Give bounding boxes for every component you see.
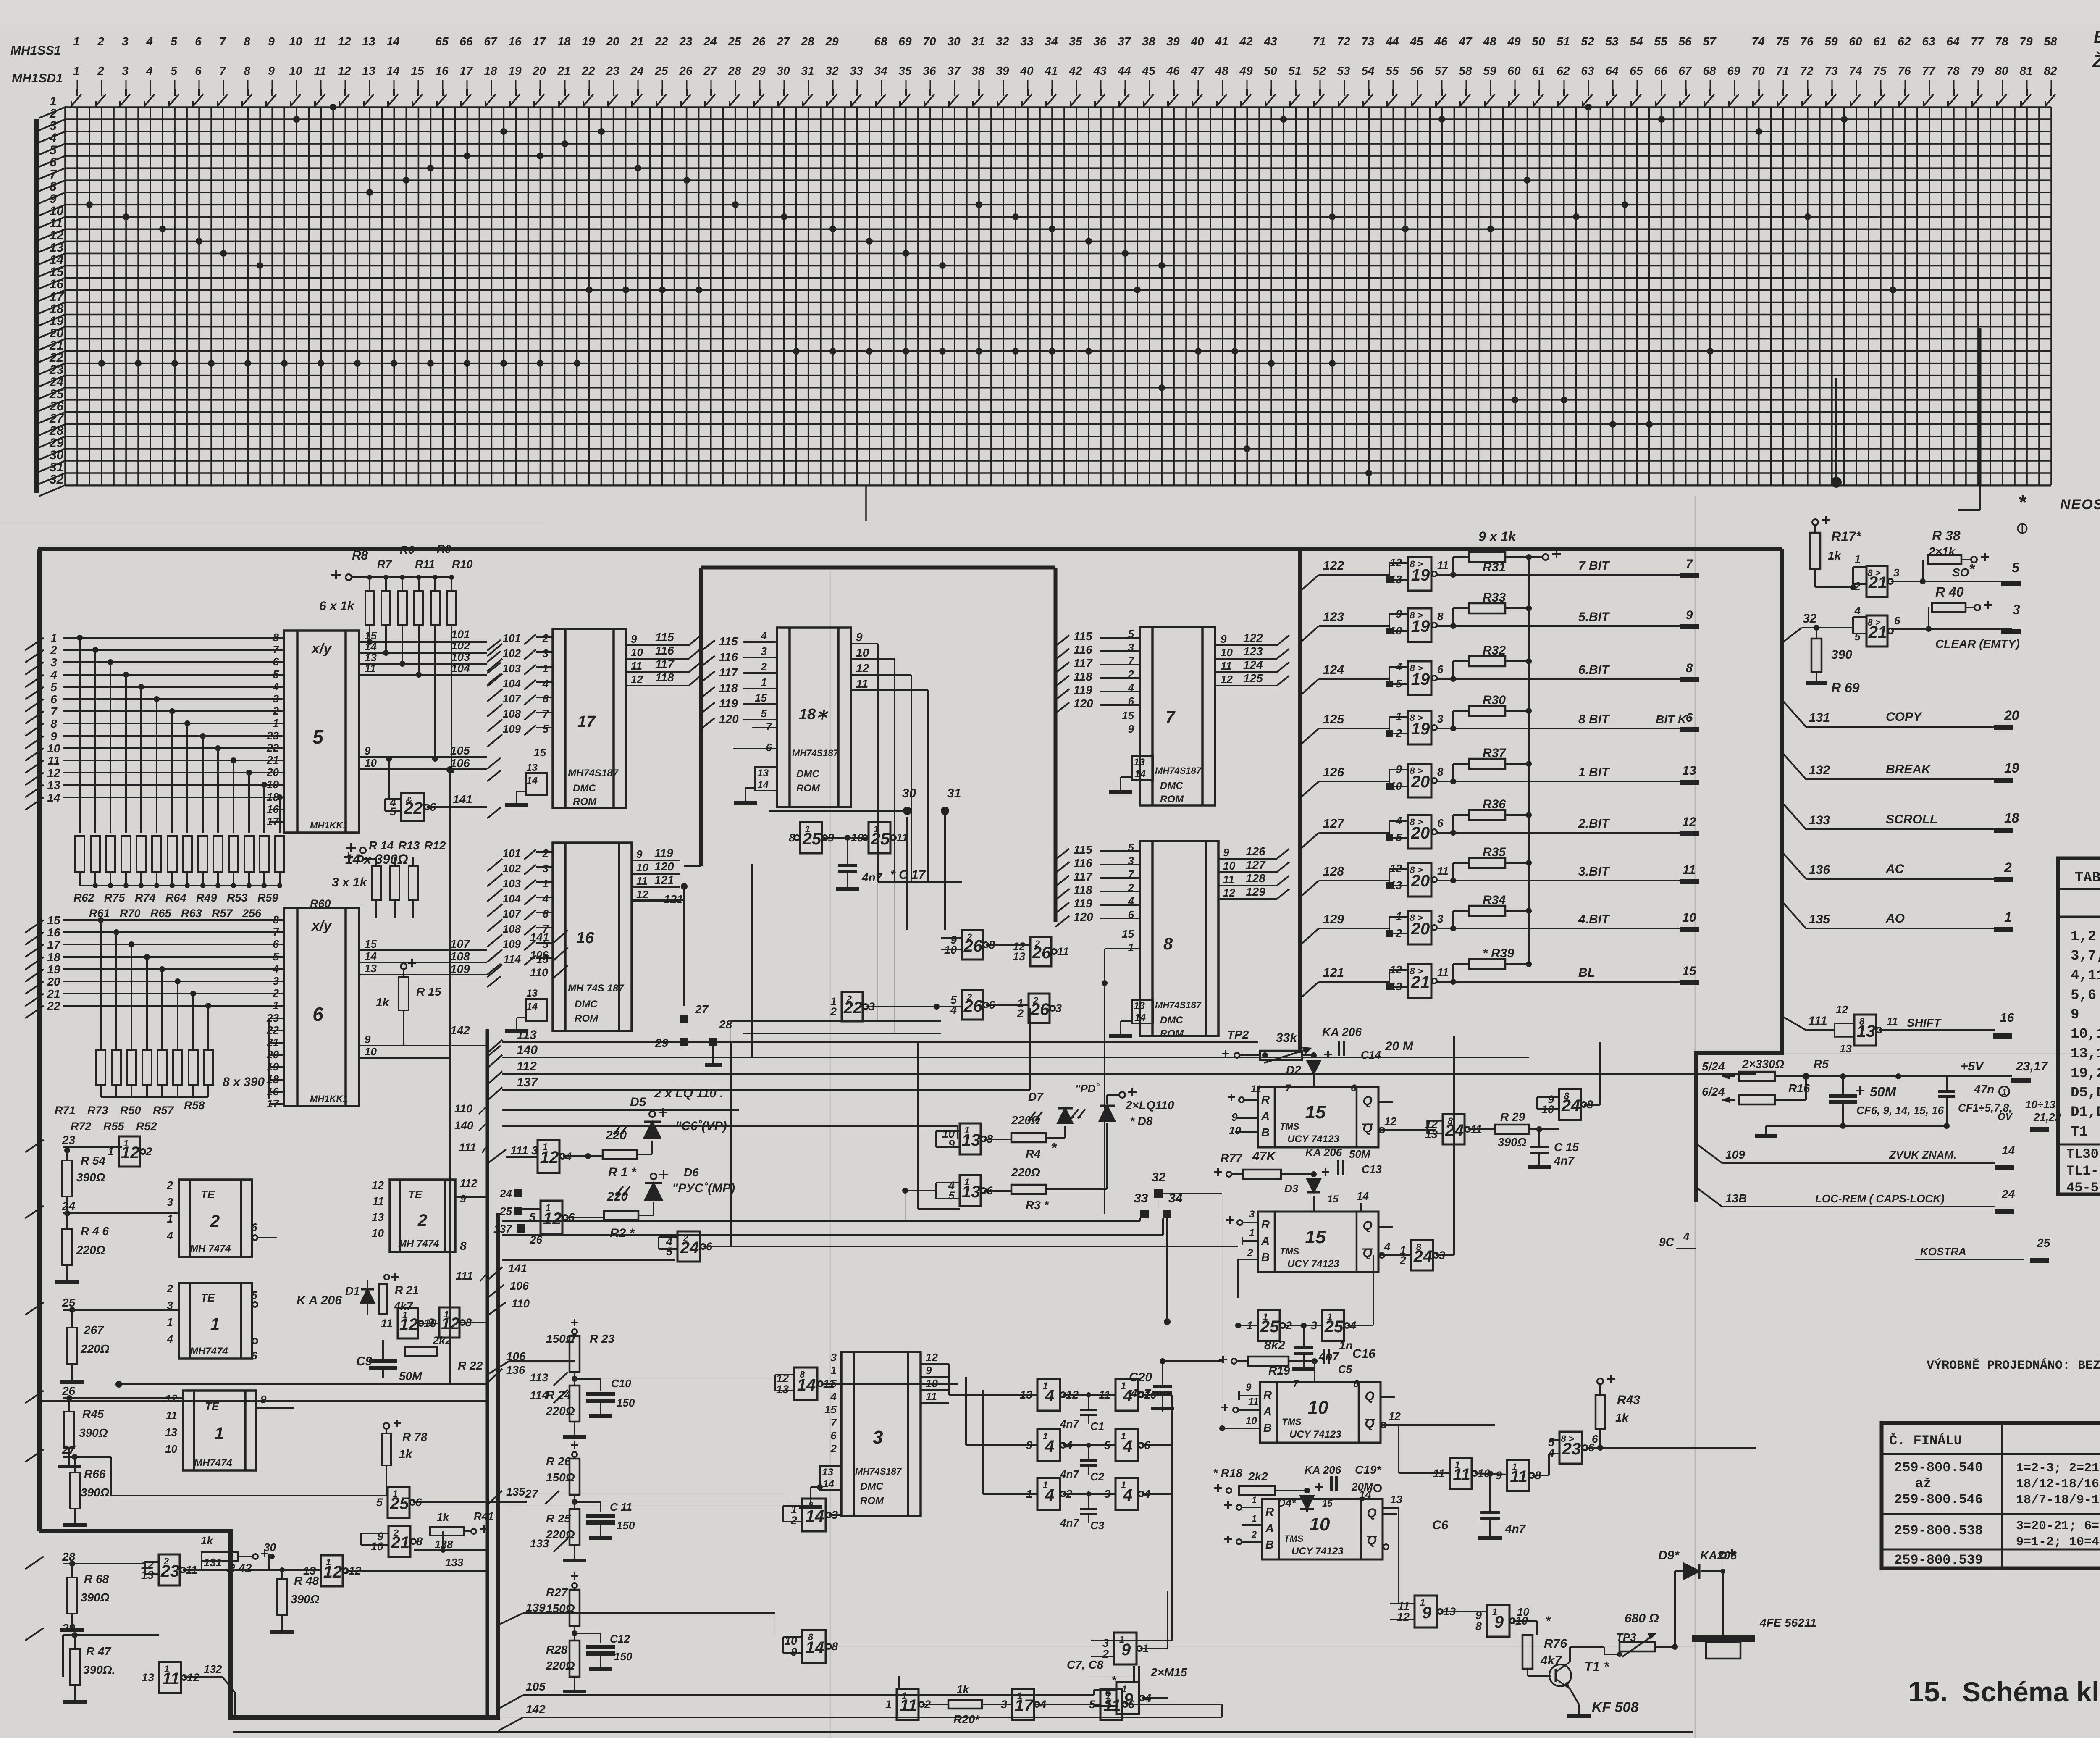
svg-text:106: 106	[450, 757, 470, 770]
svg-text:4: 4	[950, 1004, 957, 1016]
svg-text:2: 2	[417, 1211, 427, 1230]
svg-text:+5V: +5V	[1961, 1060, 1984, 1073]
svg-text:48: 48	[1215, 64, 1228, 77]
svg-text:13: 13	[372, 1211, 384, 1223]
svg-text:102: 102	[503, 862, 521, 875]
svg-text:TMS: TMS	[1282, 1417, 1302, 1427]
long wire 112	[502, 1073, 1756, 1075]
svg-text:113: 113	[530, 1371, 548, 1384]
svg-text:70: 70	[1751, 64, 1765, 77]
gate 12a	[119, 1136, 140, 1167]
wire 121 from bus to gate 21	[1300, 982, 1319, 999]
svg-text:259-800.538: 259-800.538	[1894, 1523, 1983, 1538]
wires around gates 26	[986, 944, 1030, 946]
svg-text:R 21: R 21	[395, 1284, 419, 1296]
ROM18 right pins 9 10 12 11	[851, 631, 928, 882]
svg-text:2: 2	[542, 632, 549, 644]
gate 20 row 1 BIT	[1408, 764, 1431, 797]
gate 20 row 3.BIT	[1408, 863, 1431, 897]
svg-text:29: 29	[752, 64, 766, 77]
svg-text:R43: R43	[1617, 1393, 1640, 1407]
svg-text:8 x 390: 8 x 390	[223, 1075, 265, 1089]
middle heavy box top	[701, 566, 1055, 570]
svg-text:123: 123	[1243, 645, 1263, 658]
flip-flop TE 1b MH7474	[183, 1391, 256, 1470]
terminal 26	[25, 1391, 44, 1403]
resistor R54 390	[62, 1160, 72, 1196]
svg-text:R2 *: R2 *	[610, 1226, 635, 1240]
wire long 27 row	[502, 1259, 675, 1261]
svg-text:66: 66	[1654, 64, 1667, 77]
svg-text:B BYSTRICA - 300. 538: B BYSTRICA - 300. 538	[2094, 27, 2100, 47]
ROM 7 MH74S187	[1140, 627, 1215, 805]
svg-text:14: 14	[2002, 1144, 2015, 1157]
svg-text:38: 38	[971, 64, 985, 77]
svg-text:5/24: 5/24	[1702, 1060, 1725, 1073]
bottom long wire 142	[523, 1717, 1222, 1718]
svg-text:70: 70	[923, 35, 936, 48]
capacitor C17 4n7	[847, 838, 848, 865]
svg-text:2: 2	[1033, 995, 1039, 1006]
ROM3 sub-box pins 13 14	[820, 1466, 841, 1490]
svg-text:24: 24	[703, 35, 717, 48]
resistor R36 1k	[1469, 810, 1505, 820]
svg-text:102: 102	[503, 647, 521, 660]
svg-text:12: 12	[338, 35, 351, 48]
svg-text:24: 24	[499, 1187, 512, 1200]
svg-text:11: 11	[1437, 559, 1449, 571]
svg-text:41: 41	[1215, 35, 1228, 48]
long wire 113	[502, 1041, 1258, 1043]
resistor R43 1k	[1597, 1378, 1603, 1384]
svg-text:10: 10	[372, 1227, 384, 1239]
svg-text:UCY 74123: UCY 74123	[1287, 1258, 1339, 1270]
ROM8 pin1 wire left long	[1105, 948, 1140, 949]
svg-text:13: 13	[303, 1564, 316, 1577]
resistor R34 1k	[1469, 906, 1505, 916]
svg-text:11: 11	[896, 831, 908, 844]
gates 12d 12e pair	[398, 1308, 418, 1338]
monostable 10b UCY74123	[1262, 1499, 1383, 1559]
svg-text:220Ω: 220Ω	[76, 1244, 105, 1257]
svg-text:x/y: x/y	[311, 641, 332, 657]
svg-text:390Ω: 390Ω	[81, 1486, 110, 1499]
svg-text:1: 1	[73, 35, 80, 48]
svg-text:44: 44	[1385, 35, 1399, 48]
resistor bank 3x1k R14 R13 R12	[372, 857, 418, 918]
svg-text:259-800.546: 259-800.546	[1894, 1492, 1983, 1507]
svg-text:133: 133	[445, 1556, 464, 1569]
svg-text:8 >: 8 >	[1410, 865, 1423, 875]
svg-text:R30: R30	[1483, 693, 1506, 707]
svg-text:73: 73	[1824, 64, 1838, 77]
svg-text:107: 107	[450, 937, 470, 950]
decoder 5 pins 9 10 outputs to 105 106	[359, 744, 501, 1384]
svg-text:30: 30	[777, 64, 790, 77]
svg-text:1: 1	[1855, 553, 1861, 565]
resistor R2 220	[604, 1211, 638, 1220]
svg-text:3: 3	[873, 1427, 883, 1448]
ROM 8 right pins to 126-129	[1218, 845, 1289, 899]
resistor R29 390	[1468, 1128, 1495, 1130]
svg-text:131: 131	[204, 1556, 222, 1569]
svg-text:MH1SD1: MH1SD1	[12, 71, 63, 85]
svg-text:DMC: DMC	[860, 1481, 883, 1492]
svg-text:T1 *: T1 *	[1584, 1659, 1609, 1674]
svg-text:3: 3	[1893, 566, 1900, 579]
ROM 16 left pin labels	[503, 847, 549, 1033]
svg-text:8: 8	[1416, 1242, 1422, 1252]
svg-text:12: 12	[1384, 1115, 1396, 1128]
terminal 27	[25, 1449, 44, 1462]
pads 32 33 34	[1154, 1189, 1163, 1198]
svg-text:259-800.539: 259-800.539	[1894, 1552, 1983, 1568]
svg-text:1: 1	[546, 1202, 551, 1213]
svg-text:C20: C20	[1129, 1370, 1152, 1384]
power tap for 9x1k	[1529, 556, 1542, 558]
svg-text:1: 1	[1252, 1495, 1257, 1505]
svg-text:25: 25	[654, 64, 668, 77]
svg-text:13: 13	[165, 1426, 177, 1438]
svg-text:6: 6	[1128, 695, 1134, 707]
svg-text:107: 107	[503, 692, 522, 705]
svg-text:3 x 1k: 3 x 1k	[332, 876, 367, 889]
svg-text:8: 8	[460, 1239, 467, 1252]
svg-text:2: 2	[790, 1514, 797, 1527]
svg-text:81: 81	[2019, 64, 2032, 77]
svg-text:56: 56	[1678, 35, 1692, 48]
svg-text:67: 67	[1678, 64, 1692, 77]
svg-text:32: 32	[825, 64, 839, 77]
wire band left-middle long returns	[502, 1109, 739, 1111]
svg-text:3: 3	[122, 35, 129, 48]
svg-text:12: 12	[636, 888, 648, 901]
svg-text:8: 8	[808, 1632, 814, 1642]
svg-text:140: 140	[454, 1119, 473, 1132]
monostable 15b UCY74123	[1258, 1212, 1378, 1272]
svg-text:21: 21	[47, 987, 60, 1000]
gate 21b pins 9 10 out 8 and R41	[388, 1526, 410, 1557]
svg-text:R50: R50	[120, 1104, 141, 1117]
svg-text:123: 123	[1323, 610, 1344, 624]
pin numbers left of decoder 6	[266, 913, 284, 1110]
svg-text:R 47: R 47	[86, 1645, 112, 1658]
signal line 5.BIT	[1436, 625, 1684, 627]
svg-text:2×330Ω: 2×330Ω	[1742, 1057, 1785, 1070]
svg-text:76: 76	[1898, 64, 1911, 77]
svg-text:D1,D2,D3,D4,D9: D1,D2,D3,D4,D9	[2071, 1104, 2100, 1120]
svg-text:MH 7474: MH 7474	[398, 1238, 439, 1249]
svg-text:Schéma klávesnice CONSUL 259.1: Schéma klávesnice CONSUL 259.13	[1962, 1676, 2100, 1707]
svg-text:1: 1	[1128, 941, 1134, 954]
svg-text:48: 48	[1483, 35, 1496, 48]
svg-text:23,17: 23,17	[2016, 1060, 2048, 1073]
svg-text:3: 3	[273, 975, 279, 987]
resistor R35 1k	[1469, 858, 1505, 868]
bundle diagonals 115-120 left of bus 1669	[689, 635, 701, 686]
svg-text:R 68: R 68	[84, 1572, 109, 1585]
svg-text:R41: R41	[474, 1510, 494, 1522]
svg-text:8: 8	[1437, 610, 1444, 623]
gate 11a pins 13 12 out 132	[159, 1662, 181, 1693]
svg-text:30: 30	[264, 1541, 276, 1554]
svg-text:50: 50	[1532, 35, 1545, 48]
svg-text:45: 45	[1142, 64, 1155, 77]
svg-text:R62: R62	[73, 891, 94, 904]
ROM 7 right pins to 122-125	[1215, 631, 1289, 686]
grid left heavy border bar	[34, 119, 39, 493]
svg-text:R34: R34	[1483, 893, 1506, 907]
svg-text:220Ω: 220Ω	[1011, 1166, 1040, 1179]
svg-text:31: 31	[971, 35, 984, 48]
svg-text:8: 8	[1448, 1116, 1453, 1126]
svg-text:8: 8	[273, 913, 279, 926]
svg-text:4: 4	[273, 962, 279, 975]
svg-text:15: 15	[47, 914, 60, 927]
svg-text:C 15: C 15	[1554, 1141, 1579, 1154]
svg-text:10: 10	[1308, 1397, 1328, 1418]
svg-text:35: 35	[1069, 35, 1082, 48]
svg-text:ROM: ROM	[796, 783, 820, 794]
svg-text:KOSTRA: KOSTRA	[1920, 1245, 1966, 1258]
svg-text:15: 15	[1305, 1102, 1326, 1123]
svg-text:R66: R66	[84, 1467, 106, 1480]
svg-text:3: 3	[1437, 713, 1444, 725]
svg-text:R45: R45	[82, 1407, 104, 1420]
long wires from left to pads	[502, 1220, 1140, 1222]
ROM 17 MH74S187	[553, 629, 626, 808]
svg-text:8: 8	[244, 64, 250, 77]
svg-text:9 x 1k: 9 x 1k	[1478, 529, 1517, 544]
svg-text:18: 18	[484, 64, 497, 77]
svg-text:R 4 6: R 4 6	[81, 1225, 109, 1238]
svg-text:150Ω: 150Ω	[546, 1332, 575, 1345]
svg-text:19,20,21,23: 19,20,21,23	[2071, 1066, 2100, 1082]
svg-text:129: 129	[1246, 885, 1265, 898]
resistors R26 R25 C11 gate 14b	[571, 1444, 578, 1446]
svg-text:1k: 1k	[399, 1447, 413, 1460]
svg-text:20: 20	[47, 975, 60, 988]
svg-text:9: 9	[1496, 1469, 1502, 1482]
svg-text:ROM: ROM	[860, 1495, 884, 1507]
svg-text:11: 11	[1251, 1083, 1261, 1095]
svg-text:47n: 47n	[1974, 1083, 1994, 1096]
svg-text:KA 206: KA 206	[1322, 1025, 1362, 1039]
wire 122 from bus to gate 19	[1300, 575, 1319, 592]
svg-text:ROM: ROM	[1160, 794, 1184, 805]
svg-text:8 >: 8 >	[1410, 912, 1423, 923]
svg-text:R19: R19	[1268, 1364, 1290, 1377]
svg-text:1: 1	[273, 717, 279, 729]
pull-up resistor bank 6x1k R8 R7 R11 R6 R9 R10	[365, 575, 456, 625]
svg-text:4: 4	[1384, 1240, 1391, 1253]
svg-text:105: 105	[450, 744, 470, 757]
labels 101-104 diagonal right of decoder 5	[451, 628, 501, 685]
svg-text:4: 4	[542, 892, 549, 905]
svg-text:120: 120	[719, 713, 739, 726]
svg-text:6: 6	[251, 1221, 257, 1233]
signal row BREAK	[1782, 752, 1806, 779]
svg-text:1: 1	[273, 999, 279, 1012]
svg-text:20: 20	[266, 766, 279, 778]
svg-text:150: 150	[617, 1396, 635, 1409]
ROM 17 right pins 9-12 wires to 115-118	[626, 631, 689, 686]
svg-text:107: 107	[503, 907, 522, 920]
svg-text:12: 12	[1223, 886, 1235, 899]
svg-text:63: 63	[1581, 64, 1594, 77]
svg-text:R75: R75	[104, 891, 126, 904]
svg-text:R74: R74	[135, 891, 156, 904]
svg-text:111: 111	[1808, 1014, 1827, 1028]
svg-text:7: 7	[1128, 655, 1135, 667]
svg-text:3: 3	[543, 862, 549, 875]
svg-text:15: 15	[1122, 928, 1134, 940]
svg-text:8: 8	[244, 35, 250, 48]
svg-text:D6: D6	[684, 1166, 699, 1179]
svg-text:NEOSAZENO PRO Č. F. - 800.: NEOSAZENO PRO Č. F. - 800. 540	[2060, 496, 2100, 513]
svg-text:5: 5	[543, 723, 549, 735]
svg-text:116: 116	[1074, 857, 1092, 870]
svg-text:1: 1	[1043, 1431, 1048, 1441]
svg-text:5: 5	[2012, 560, 2020, 575]
svg-text:BL: BL	[1578, 966, 1595, 980]
svg-text:10: 10	[289, 64, 302, 77]
gates 13b 13c to R4 R3 and D7 D8	[960, 1123, 981, 1154]
wire 27	[63, 1456, 111, 1458]
svg-text:42: 42	[1068, 64, 1082, 77]
svg-text:4: 4	[167, 1333, 173, 1345]
svg-text:5: 5	[948, 1189, 955, 1202]
svg-text:52: 52	[1581, 35, 1594, 48]
svg-text:49: 49	[1239, 64, 1253, 77]
svg-text:TMS: TMS	[1280, 1121, 1299, 1132]
svg-text:R5: R5	[1814, 1057, 1829, 1070]
svg-text:10: 10	[1310, 1514, 1330, 1535]
svg-text:1: 1	[964, 1177, 969, 1187]
gate 12b LED driver VP	[538, 1140, 559, 1173]
svg-text:Q: Q	[1367, 1506, 1376, 1520]
signal line 2.BIT	[1436, 832, 1684, 834]
svg-text:R55: R55	[103, 1120, 125, 1133]
svg-text:9: 9	[926, 1364, 932, 1377]
svg-text:2 x LQ 110 .: 2 x LQ 110 .	[654, 1086, 724, 1100]
svg-text:15: 15	[1682, 964, 1697, 978]
svg-text:21: 21	[630, 35, 643, 48]
svg-text:46: 46	[1434, 35, 1448, 48]
resistor R3 220	[984, 1190, 1011, 1192]
diode D1 with R21 4k7	[367, 1280, 368, 1315]
svg-text:111: 111	[456, 1270, 473, 1282]
svg-text:10: 10	[1223, 860, 1235, 872]
svg-text:C3: C3	[1090, 1519, 1105, 1532]
svg-text:27: 27	[62, 1443, 76, 1456]
input terminals 1-14 with diagonal leaders	[25, 631, 60, 810]
svg-text:101: 101	[503, 632, 521, 644]
svg-text:2: 2	[163, 1556, 169, 1567]
svg-text:1: 1	[167, 1316, 173, 1328]
svg-text:7 BIT: 7 BIT	[1578, 559, 1610, 573]
svg-text:UCY 74123: UCY 74123	[1287, 1133, 1339, 1145]
svg-text:73: 73	[1361, 35, 1375, 48]
gate 14b	[802, 1499, 826, 1531]
svg-text:10: 10	[365, 1045, 377, 1058]
gate 19 row 7 BIT	[1408, 557, 1431, 591]
decoder IC 6 MH1KK1	[284, 908, 359, 1106]
svg-text:19: 19	[508, 64, 522, 77]
svg-text:MH74S187: MH74S187	[855, 1466, 902, 1477]
gate 25b pins 5 6 out 27	[388, 1487, 409, 1518]
svg-text:Q: Q	[1362, 1246, 1372, 1260]
svg-text:4.BIT: 4.BIT	[1578, 912, 1610, 926]
svg-text:10: 10	[1229, 1124, 1241, 1137]
svg-text:138: 138	[435, 1538, 453, 1551]
svg-text:5: 5	[666, 1245, 673, 1258]
svg-text:1: 1	[1512, 1462, 1517, 1472]
svg-text:9: 9	[268, 35, 275, 48]
svg-text:128: 128	[1246, 872, 1265, 885]
svg-text:2: 2	[846, 994, 852, 1004]
svg-text:R63: R63	[181, 907, 202, 920]
svg-text:R9: R9	[437, 543, 451, 555]
svg-text:1k: 1k	[1828, 549, 1842, 562]
svg-text:5: 5	[171, 64, 177, 77]
svg-text:103: 103	[503, 662, 521, 675]
svg-text:2: 2	[273, 987, 279, 999]
svg-text:34: 34	[874, 64, 887, 77]
svg-text:47: 47	[1458, 35, 1473, 48]
svg-text:8: 8	[1437, 765, 1444, 778]
svg-text:9: 9	[1221, 633, 1227, 645]
wire from pad 32 to 15a area	[1163, 1193, 1222, 1194]
svg-text:8: 8	[1475, 1620, 1482, 1633]
svg-text:104: 104	[451, 662, 470, 675]
signal line 6.BIT	[1436, 678, 1684, 680]
svg-text:103: 103	[451, 651, 470, 663]
svg-text:111: 111	[459, 1141, 476, 1154]
svg-text:1=2-3; 2=21-22; 4=7-8; 5=17-16: 1=2-3; 2=21-22; 4=7-8; 5=17-16; 7=18-19;	[2016, 1461, 2100, 1475]
10b Q out 13	[1383, 1507, 1399, 1509]
TE1 outputs 5 6	[252, 1302, 257, 1307]
power tap for 6x1k bank	[331, 574, 341, 576]
svg-text:1: 1	[1121, 1480, 1126, 1490]
svg-text:R71: R71	[55, 1104, 76, 1117]
svg-text:45-56,66-81,83-85: 45-56,66-81,83-85	[2066, 1180, 2100, 1196]
svg-text:* C 17: * C 17	[890, 868, 926, 882]
svg-text:6: 6	[1437, 817, 1444, 829]
middle heavy box left bus	[699, 568, 703, 866]
svg-text:B: B	[1265, 1538, 1274, 1551]
ROM3 output wires to gates 4	[948, 1364, 950, 1395]
svg-text:TE: TE	[201, 1188, 215, 1201]
svg-text:78: 78	[1995, 35, 2008, 48]
10b pin wires	[1224, 1504, 1232, 1506]
svg-text:69: 69	[898, 35, 912, 48]
svg-text:104: 104	[503, 892, 521, 905]
10a input R19 8k2 C5 1n	[1219, 1359, 1227, 1360]
svg-text:125: 125	[1243, 672, 1263, 685]
resistor R40	[1928, 607, 1929, 629]
svg-text:137: 137	[493, 1223, 512, 1235]
svg-text:57: 57	[1434, 64, 1448, 77]
gates 9e 9f near T1	[1415, 1596, 1437, 1628]
15a Q wire to gate 24b	[1378, 1129, 1436, 1131]
svg-text:3=20-21; 6=16-19; 9=14-13-12;: 3=20-21; 6=16-19; 9=14-13-12; 22-23; 28-…	[2016, 1519, 2100, 1533]
bundle diagonals 115-120 into ROM 7	[1055, 628, 1140, 735]
svg-text:1: 1	[1105, 1691, 1110, 1701]
svg-text:R32: R32	[1483, 644, 1506, 657]
ROM 16 right pins 9-12 to 119-121	[632, 847, 680, 901]
svg-text:142: 142	[526, 1703, 546, 1716]
